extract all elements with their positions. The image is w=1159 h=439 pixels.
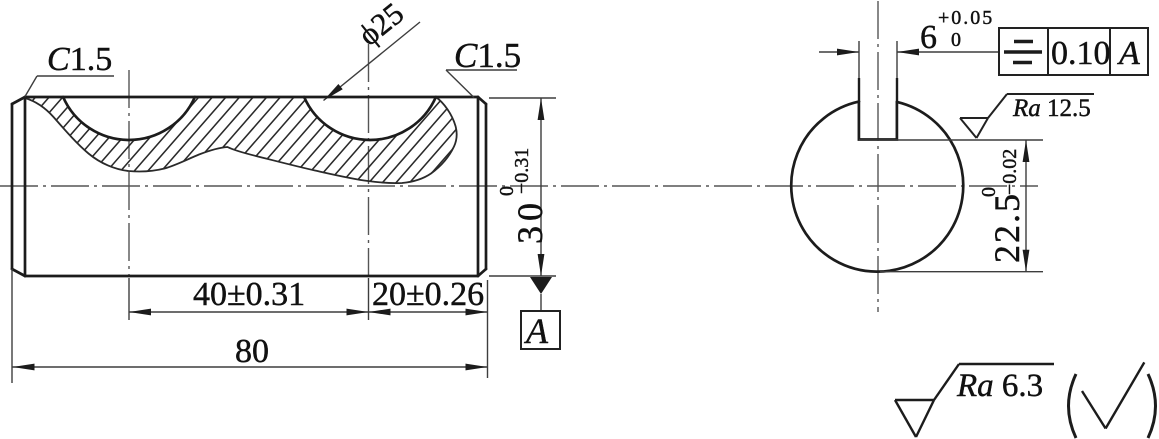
keyway slot (859, 102, 897, 140)
dimension 30 0/-0.31 (489, 97, 556, 99)
symmetry tolerance frame (999, 28, 1148, 75)
svg-text:0: 0 (951, 29, 961, 51)
wavy break line (25, 97, 457, 183)
surface finish Ra 12.5 (960, 94, 1094, 138)
svg-text:Ra 6.3: Ra 6.3 (956, 368, 1043, 404)
shaft outline (12, 97, 486, 276)
parentheses (1069, 374, 1077, 438)
svg-text:6: 6 (920, 19, 937, 56)
dimension 6 +0.05/0 (819, 51, 859, 53)
dimension 40±0.31 (128, 278, 130, 320)
svg-text:A: A (524, 311, 549, 351)
end view circle (791, 102, 963, 272)
svg-text:−0.02: −0.02 (999, 149, 1021, 195)
svg-text:0: 0 (978, 187, 1000, 197)
hatching of broken-out section (0, 92, 638, 202)
pocket arc 1 (63, 97, 195, 140)
slot extension lines up (858, 41, 860, 80)
basic symbol in parentheses (1082, 362, 1144, 428)
svg-text:Ra 12.5: Ra 12.5 (1012, 95, 1091, 122)
svg-text:80: 80 (235, 333, 269, 370)
svg-text:+0.05: +0.05 (938, 7, 994, 29)
dimension 80 (11, 269, 13, 383)
svg-text:0.10: 0.10 (1051, 35, 1111, 72)
svg-text:−0.31: −0.31 (511, 148, 533, 194)
dimension 22.5 0/-0.02 (859, 139, 1043, 141)
symmetry symbol (1004, 42, 1042, 63)
pocket 1 centerline (128, 70, 130, 277)
svg-text:30: 30 (510, 198, 550, 244)
dimension 20±0.26 (487, 280, 489, 378)
svg-text:C1.5: C1.5 (454, 36, 521, 75)
pocket 2 centerline (368, 44, 370, 277)
pocket arc 2 (304, 97, 436, 140)
leader phi25 (324, 22, 421, 101)
horizontal axis centerline (0, 185, 1038, 187)
end view vertical centerline (877, 1, 879, 312)
svg-text:A: A (1117, 35, 1140, 72)
svg-text:22.5: 22.5 (987, 192, 1027, 263)
svg-text:C1.5: C1.5 (47, 41, 112, 78)
svg-text:20±0.26: 20±0.26 (372, 276, 484, 313)
datum A symbol (530, 277, 552, 294)
svg-text:40±0.31: 40±0.31 (193, 276, 305, 313)
surface finish Ra 6.3 (general) (895, 364, 1054, 437)
